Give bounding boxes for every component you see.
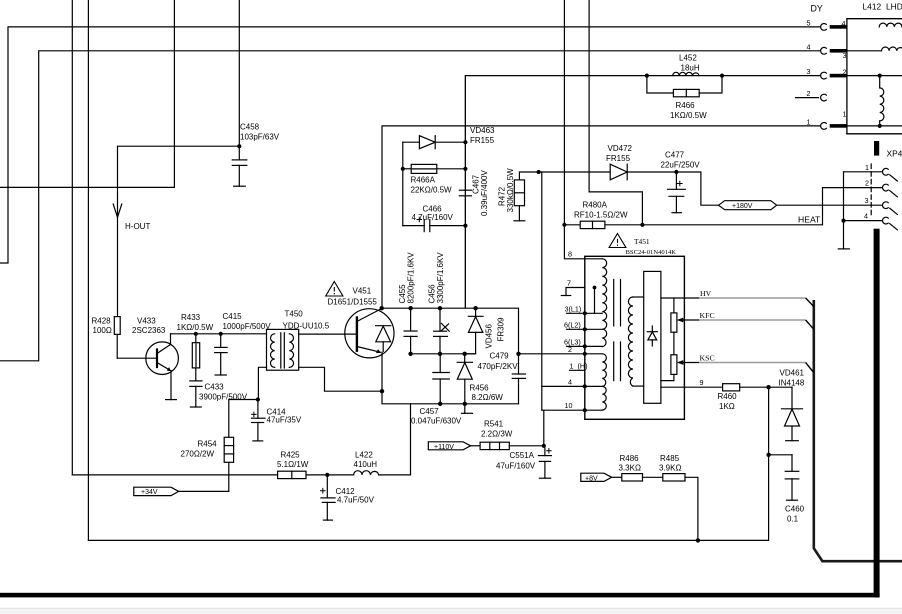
svg-text:2: 2 [865,179,869,188]
T451 pin L1 stub [567,312,585,314]
flag +180V [719,201,777,210]
T451 pin 1H stub [570,369,585,371]
label R472 vertical [498,168,516,213]
resistor R486 [612,474,663,481]
node rail B C457 [438,402,442,406]
wire B+ to pins 4 10 [542,386,585,445]
svg-text:C551A: C551A [510,451,535,460]
wire +180V to XP40 pin3 [777,204,883,206]
wire vertical mid D [589,0,642,225]
ground rail B bar [462,404,473,414]
node L412 coil top [878,74,882,78]
svg-text:3300pF/1.6KV: 3300pF/1.6KV [436,252,445,304]
wire VD463 anode drop [402,142,404,225]
T451 pin7 stub [561,288,585,296]
svg-text:R486: R486 [620,454,640,463]
svg-text:4: 4 [864,212,868,221]
node L412 coil bottom [878,124,882,128]
inductor L412 winding top [879,23,902,27]
svg-text:R428: R428 [92,317,112,326]
resistor R541 [471,442,544,449]
wire collector rail [382,308,519,354]
capacitor C457 [433,354,450,404]
wire CRT cable vertical [814,300,902,561]
transformer T450 [267,329,299,370]
node XP40 pin4 [841,219,845,223]
T451 secondary winding [628,297,643,386]
capacitor C460 [769,455,799,500]
svg-text:R454: R454 [198,440,218,449]
svg-text:1KΩ/0.5W: 1KΩ/0.5W [177,323,214,332]
wire bottom rail [88,387,768,540]
svg-text:9: 9 [700,378,704,387]
wire KFC gray [699,319,806,321]
capacitor C414 [252,400,266,441]
wire to R454 [229,400,258,438]
svg-text:R485: R485 [660,454,680,463]
T451 core [614,280,621,381]
resistor R466A [403,164,466,173]
node L452 right [720,74,724,78]
resistor R428 [114,317,120,359]
svg-text:2SC2363: 2SC2363 [132,326,166,335]
node VD472 anode [537,170,541,174]
wire KFC drop [806,320,814,330]
svg-text:L452: L452 [679,54,697,63]
capacitor C412 [321,475,336,520]
capacitor C551A [538,446,551,478]
resistor R480A [564,221,642,228]
svg-text:VD461: VD461 [780,369,805,378]
capacitor C456 with X mark [434,308,450,354]
box L412 [847,19,902,134]
T451 pin L2 stub [567,328,585,330]
svg-text:3: 3 [865,196,869,205]
wire DY2 stub [796,97,819,99]
svg-text:R456: R456 [470,384,490,393]
wire DY3 rail from node B+ [465,76,819,308]
wire DY5 top rail [0,27,820,263]
node T451 pin taps [583,286,597,413]
svg-text:10: 10 [565,401,573,410]
label VD456 vertical [485,317,506,349]
diode damper V451 internal [376,326,391,352]
thick bottom rail [0,593,880,598]
wire HEAT to XP40 pin2 [642,188,882,225]
svg-text:HEAT: HEAT [798,215,821,225]
capacitor C467 [459,190,471,196]
svg-text:R541: R541 [484,420,504,429]
node HEAT left [562,223,566,227]
T451 winding taps [585,259,603,410]
node VD456 top [473,306,477,310]
svg-text:R425: R425 [281,451,301,460]
node rail A C455 [408,352,412,356]
node C415 top [219,332,223,336]
svg-text:410uH: 410uH [354,460,378,469]
inductor L452 [673,72,699,75]
wire KSC stub [684,362,699,364]
node R460 right [766,385,770,389]
svg-text:7: 7 [567,279,571,288]
pin bar DY5 [830,25,847,29]
T451 pin L3 stub [567,345,585,347]
resistor R466 [647,76,722,97]
svg-text:+180V: +180V [732,203,753,210]
diode VD461 [782,387,803,441]
wire emitter rail A [411,353,476,355]
wire to T451 pin2 [519,353,585,355]
node V451 emitter [380,389,384,393]
transformer T451 box [585,256,685,419]
warning triangle T451 [609,234,626,248]
svg-text:C477: C477 [665,151,685,160]
svg-text:FR155: FR155 [606,154,631,163]
svg-text:KFC: KFC [700,311,715,320]
svg-text:T451: T451 [634,237,650,246]
label C467 vertical [472,170,490,216]
svg-text:YDD-UU10.5: YDD-UU10.5 [283,322,330,331]
svg-text:R480A: R480A [583,201,608,210]
node 2 wire C479 [516,352,520,356]
wire vertical mid C (to T451 pin8) [564,0,584,259]
wire B+ branch vertical [464,76,466,308]
transistor V433 [117,334,178,400]
svg-text:D1651/D1555: D1651/D1555 [328,298,378,307]
svg-text:330kΩ/0.5W: 330kΩ/0.5W [506,168,515,213]
label V451 warning excl [564,18,869,410]
shield bar XP40 top [874,141,879,156]
node rail A VD456 R456 [463,352,467,356]
node rail A C456 C457 [438,352,442,356]
svg-text:103pF/63V: 103pF/63V [240,133,280,142]
node R541 B+ [542,444,546,448]
svg-text:5: 5 [807,18,811,27]
potentiometer focus [671,298,677,355]
node C458 [237,144,241,148]
wire DY1 to V451 collector [382,126,820,308]
svg-text:0.047uF/630V: 0.047uF/630V [411,417,462,426]
svg-text:47uF/35V: 47uF/35V [267,416,302,425]
flag +34V [134,487,229,495]
svg-text:4.7uF/160V: 4.7uF/160V [412,213,454,222]
node C466 right [463,224,467,228]
connector XP40 contacts [882,168,897,229]
svg-text:1: 1 [865,163,869,172]
svg-text:C458: C458 [240,123,260,132]
svg-text:H-OUT: H-OUT [125,222,150,231]
flag +8V [581,473,612,481]
svg-text:47uF/160V: 47uF/160V [496,462,536,471]
svg-text:T450: T450 [285,310,304,319]
node VD463 cathode [463,140,467,144]
svg-text:5.1Ω/1W: 5.1Ω/1W [277,460,309,469]
svg-text:RF10-1.5Ω/2W: RF10-1.5Ω/2W [574,211,628,220]
svg-text:C457: C457 [420,407,440,416]
svg-text:0.39uF/400V: 0.39uF/400V [480,170,489,216]
node C455 top [408,306,412,310]
potentiometer screen [661,355,677,381]
resistor R454 [224,437,233,491]
diode VD463 [403,136,466,149]
pin bar DY1 [830,124,847,128]
wire L412 row3 [847,75,902,77]
svg-text:3: 3 [807,67,811,76]
node V451 collector [380,306,384,310]
svg-text:4.7uF/50V: 4.7uF/50V [337,496,375,505]
wire KSC gray [699,362,806,364]
node bottom rail [696,538,700,542]
svg-text:270Ω/2W: 270Ω/2W [181,450,215,459]
arrow H-OUT [113,204,122,217]
shield bar XP40 bottom [874,229,880,598]
svg-text:C433: C433 [205,383,225,392]
svg-text:+34V: +34V [141,489,158,496]
transistor V451 [299,309,394,392]
wire L412 row2 [847,50,882,52]
svg-text:FR155: FR155 [470,136,495,145]
wire HV stub [661,297,699,299]
wire 9 row [661,386,723,388]
node rail B R456 [463,402,467,406]
capacitor C458 [232,146,247,186]
svg-text:LHDT: LHDT [886,2,902,12]
capacitor C455 [404,308,417,354]
T451 primary winding [602,259,606,410]
label C456 vertical [428,252,446,304]
wire HV gray [699,297,806,299]
svg-text:22uF/250V: 22uF/250V [661,161,701,170]
wire vertical left A [71,0,73,475]
svg-text:8200pF/1.6KV: 8200pF/1.6KV [407,252,416,304]
connector DY contacts [821,23,827,129]
svg-text:DY: DY [811,4,823,14]
svg-text:8: 8 [568,250,572,259]
svg-text:2: 2 [807,89,811,98]
svg-text:6(L2): 6(L2) [564,321,581,330]
resistor R485 [663,474,698,541]
svg-text:8.2Ω/6W: 8.2Ω/6W [472,393,504,402]
pin bar DY4 [830,49,847,53]
svg-text:1 (H): 1 (H) [570,362,588,371]
node R466A right [463,167,467,171]
svg-text:3: 3 [843,51,847,60]
svg-text:+110V: +110V [434,444,454,451]
node C456 top [438,306,442,310]
svg-text:0.1: 0.1 [787,515,799,524]
inductor L412 winding mid [882,47,902,51]
diode VD472 [539,164,677,180]
svg-text:1000pF/500V: 1000pF/500V [223,322,272,331]
flag +110V [428,442,470,450]
svg-text:22KΩ/0.5W: 22KΩ/0.5W [411,186,453,195]
node L452 left [645,74,649,78]
svg-text:C460: C460 [785,505,805,514]
svg-text:R433: R433 [181,313,201,322]
wire left feed [0,0,174,187]
svg-text:1: 1 [843,110,847,119]
svg-text:IN4148: IN4148 [779,379,805,388]
wire L412 row1 [847,125,902,127]
bottom gray strip [0,608,902,614]
pin bar DY3 [830,74,847,78]
svg-text:1KΩ: 1KΩ [719,402,735,411]
svg-text:KSC: KSC [700,354,715,363]
wire emitter rail B [382,391,519,404]
inductor L412 vertical coil [880,76,884,126]
node R466A left [401,167,405,171]
resistor R425 [278,471,354,478]
wire R425 row [72,474,277,476]
warning triangle V451 [326,282,343,297]
arrow KSC wiper [677,360,685,365]
inductor L422 [354,404,411,475]
svg-text:+8V: +8V [585,475,598,482]
wire V433 collector rail [171,333,267,335]
wire T450 primary bottom [258,367,266,399]
svg-text:1KΩ/0.5W: 1KΩ/0.5W [670,111,707,120]
svg-text:1: 1 [807,117,811,126]
node C477 top [674,170,678,174]
resistor R433 [192,334,199,381]
svg-text:XP40: XP40 [887,149,902,159]
wire vertical left B [87,0,89,540]
diode R456 [457,354,472,404]
label C455 vertical [398,252,416,304]
wire KFC stub [684,319,699,321]
svg-text:100Ω: 100Ω [93,326,112,335]
wire HV drop [806,298,814,307]
svg-text:BSC24-01N4014K: BSC24-01N4014K [626,249,677,256]
diode HV internal [647,326,657,346]
resistor R460 [723,384,792,391]
svg-text:FR309: FR309 [497,317,506,342]
svg-text:2: 2 [843,67,847,76]
dashed XP40 link [870,164,872,218]
svg-text:4: 4 [568,378,572,387]
svg-text:L422: L422 [355,451,373,460]
wire DY4 rail [0,51,820,361]
svg-text:6(L3): 6(L3) [564,338,581,347]
diode VD456 [465,308,483,354]
svg-text:V433: V433 [137,317,156,326]
svg-text:VD472: VD472 [608,144,633,153]
svg-text:3(L1): 3(L1) [565,305,582,314]
capacitor C415 [215,334,227,375]
node C412 [325,473,329,477]
svg-text:4: 4 [807,42,811,51]
wire C458 node to H-OUT [238,0,240,146]
wire H-OUT drive [118,146,240,316]
wire +180V feed [676,172,718,205]
svg-text:2.2Ω/3W: 2.2Ω/3W [481,430,513,439]
capacitor C479 [512,354,525,404]
svg-text:R460: R460 [718,392,738,401]
svg-text:L412: L412 [863,2,882,12]
svg-text:VD456: VD456 [485,323,494,348]
svg-text:4: 4 [842,19,846,28]
svg-text:2: 2 [568,345,572,354]
svg-text:R466: R466 [676,101,696,110]
svg-text:3.3KΩ: 3.3KΩ [619,464,641,473]
T451 HV rectifier block [644,271,661,403]
capacitor C477 [668,172,686,213]
svg-text:470pF/2KV: 470pF/2KV [478,362,519,371]
capacitor C433 [190,381,202,407]
svg-text:V451: V451 [353,287,372,296]
arrow KFC wiper [677,318,685,323]
resistor R472 [514,172,539,221]
svg-text:HV: HV [700,289,712,298]
node C414 [256,397,260,401]
svg-text:18uH: 18uH [681,64,700,73]
node HEAT right [640,223,644,227]
wire XP40 pin1 ground [838,172,882,249]
wire KSC drop [806,363,814,373]
capacitor C466 [403,217,466,231]
svg-text:3900pF/500V: 3900pF/500V [199,393,248,402]
node R433 top [194,332,198,336]
wire T450 secondary return [299,367,382,391]
svg-text:R466A: R466A [411,176,436,185]
svg-text:VD463: VD463 [470,126,495,135]
svg-text:C415: C415 [223,312,243,321]
svg-text:C479: C479 [490,352,510,361]
wire B+ riser [541,172,543,410]
node C460 tap [766,453,770,457]
svg-text:3.9KΩ: 3.9KΩ [659,464,681,473]
